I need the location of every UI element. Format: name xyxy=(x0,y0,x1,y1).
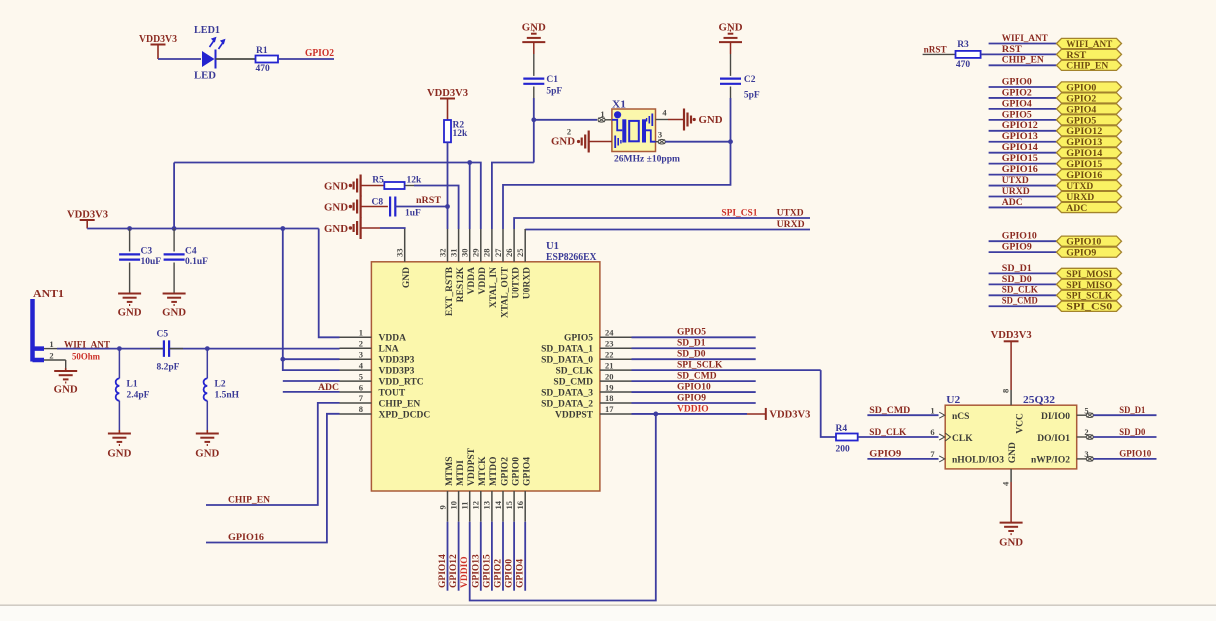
svg-text:SD_D1: SD_D1 xyxy=(1002,264,1032,274)
U1 pin 33 GND xyxy=(395,229,413,288)
svg-text:LED1: LED1 xyxy=(194,25,220,36)
wire U1 bottom GPIO15 xyxy=(491,522,493,591)
U1 pin 4 VDD3P3 xyxy=(340,360,415,376)
wire TOUT pin6 ADC xyxy=(283,391,340,393)
svg-text:GPIO10: GPIO10 xyxy=(1002,232,1037,242)
svg-text:2: 2 xyxy=(567,127,571,137)
net label GPIO14 xyxy=(1002,143,1038,153)
wire U1 bottom GPIO13 xyxy=(480,522,482,591)
wire rail to VDDA pin1 xyxy=(319,229,340,338)
svg-text:VDD3V3: VDD3V3 xyxy=(427,88,468,99)
wire U1 bottom GPIO12 xyxy=(458,522,460,591)
net label GPIO5 xyxy=(677,328,706,338)
wire rail riser to VDD line xyxy=(173,163,175,229)
svg-text:GPIO9: GPIO9 xyxy=(1002,243,1032,253)
wire VDD3V3 rail xyxy=(87,228,319,230)
U1 pin 32 EXT_RSTB xyxy=(437,229,455,316)
svg-text:GPIO15: GPIO15 xyxy=(482,554,492,588)
net label GPIO13 (rotated) xyxy=(471,554,481,588)
svg-text:2.4pF: 2.4pF xyxy=(127,391,150,401)
svg-text:LNA: LNA xyxy=(379,345,399,355)
U1 pin 26 U0TXD xyxy=(504,229,522,299)
svg-text:EXT_RSTB: EXT_RSTB xyxy=(445,266,455,316)
U1 pin 28 XTAL_IN xyxy=(482,229,500,308)
wire C8 to junction xyxy=(395,206,447,208)
svg-text:15: 15 xyxy=(504,501,514,510)
svg-text:10: 10 xyxy=(448,501,458,510)
ground L2 xyxy=(195,430,219,460)
crystal X1 26MHz xyxy=(612,100,680,165)
svg-text:20: 20 xyxy=(605,371,614,381)
svg-text:11: 11 xyxy=(460,501,470,509)
U1 pin 31 RES12K xyxy=(448,229,466,302)
wire X1 pin2 xyxy=(567,127,612,142)
svg-text:VDDD: VDDD xyxy=(478,267,488,295)
U1 pin 10 MTDI xyxy=(448,460,466,522)
svg-text:SD_D0: SD_D0 xyxy=(1002,275,1032,285)
wire pin30 riser xyxy=(469,163,471,230)
svg-text:GPIO13: GPIO13 xyxy=(471,554,481,588)
net label CHIP_EN xyxy=(228,496,270,506)
svg-text:ADC: ADC xyxy=(1002,198,1023,208)
svg-text:GPIO0: GPIO0 xyxy=(1066,83,1096,93)
svg-text:GPIO5: GPIO5 xyxy=(677,328,706,338)
wire GPIO4 to flag xyxy=(989,108,1057,110)
U1 pin 3 VDD3P3 xyxy=(340,349,415,365)
power VDD3V3 (VDDPST) xyxy=(766,408,811,421)
svg-text:SD_CMD: SD_CMD xyxy=(869,406,910,416)
port flag GPIO9 xyxy=(1057,247,1122,258)
svg-text:ADC: ADC xyxy=(1066,204,1087,214)
svg-text:GND: GND xyxy=(324,182,348,193)
wire SD_CLK to flag xyxy=(989,294,1057,296)
svg-text:XPD_DCDC: XPD_DCDC xyxy=(379,410,431,420)
svg-text:ADC: ADC xyxy=(318,383,339,393)
svg-text:GND: GND xyxy=(1008,442,1018,463)
net label GPIO10 (U2) xyxy=(1119,450,1151,460)
net label WIFI_ANT 50Ohm xyxy=(64,341,111,363)
svg-text:UTXD: UTXD xyxy=(1066,182,1093,192)
svg-text:nHOLD/IO3: nHOLD/IO3 xyxy=(952,456,1004,466)
ground C1 xyxy=(522,23,546,43)
wire R2 to pin32 xyxy=(447,142,449,229)
svg-text:L2: L2 xyxy=(215,380,226,390)
svg-text:DO/IO1: DO/IO1 xyxy=(1037,434,1070,444)
capacitor C4 0.1uF xyxy=(164,229,209,293)
net label GPIO2 xyxy=(305,48,334,59)
svg-text:VDD3P3: VDD3P3 xyxy=(379,367,415,377)
junction VDDIO xyxy=(653,412,658,417)
U1 pin 21 SD_CLK xyxy=(556,360,632,376)
net label SD_CLK (U2) xyxy=(869,428,907,438)
wire GPIO16 to pin8 xyxy=(206,414,340,543)
resistor R1 470 xyxy=(256,46,279,74)
U1 pin 19 SD_DATA_3 xyxy=(541,382,631,398)
port flag GPIO2 xyxy=(1057,93,1122,105)
wire U1 right SD_CMD xyxy=(632,380,756,382)
ground C3 xyxy=(118,294,142,319)
svg-text:GPIO14: GPIO14 xyxy=(1066,149,1102,159)
U1 pin 8 XPD_DCDC xyxy=(340,404,431,420)
svg-text:C2: C2 xyxy=(744,75,756,85)
capacitor C1 5pF xyxy=(523,42,562,98)
junction L1 xyxy=(117,346,122,351)
svg-text:14: 14 xyxy=(493,500,503,509)
svg-text:CHIP_EN: CHIP_EN xyxy=(1066,62,1108,72)
net label RST xyxy=(1002,45,1023,55)
U1 pin 22 SD_DATA_0 xyxy=(541,349,631,365)
port flag SPI_MISO xyxy=(1057,279,1122,291)
svg-text:SPI_MISO: SPI_MISO xyxy=(1066,281,1112,291)
net label GPIO0 xyxy=(1002,77,1032,87)
svg-text:GPIO2: GPIO2 xyxy=(1002,88,1032,98)
svg-text:8: 8 xyxy=(1001,389,1011,393)
wire SD_D0 to flag xyxy=(989,283,1057,285)
svg-text:C8: C8 xyxy=(372,198,384,208)
net label SD_CMD xyxy=(1002,297,1038,307)
port flag RST xyxy=(1057,49,1122,61)
junction rail-VDD3P3 xyxy=(280,226,285,231)
junction C3 xyxy=(127,226,132,231)
ground row2 xyxy=(324,196,361,218)
svg-text:GND: GND xyxy=(551,137,575,148)
svg-text:U2: U2 xyxy=(946,395,960,406)
svg-text:C3: C3 xyxy=(141,247,153,257)
svg-text:GPIO9: GPIO9 xyxy=(677,393,706,403)
svg-text:RES12K: RES12K xyxy=(456,266,466,302)
wire gnd row3 to pin33 xyxy=(361,228,405,229)
svg-text:SD_D1: SD_D1 xyxy=(677,339,706,349)
svg-text:GPIO4: GPIO4 xyxy=(1002,99,1032,109)
capacitor C3 10uF xyxy=(119,229,161,293)
U1 pin 17 VDDPST xyxy=(555,404,632,420)
port flag SPI_SCLK xyxy=(1057,290,1122,302)
svg-text:5: 5 xyxy=(359,371,363,381)
LED LED1 xyxy=(194,25,226,82)
wire U0TXD pin26 xyxy=(514,218,810,229)
ground C2 xyxy=(719,23,743,43)
svg-text:VDD_RTC: VDD_RTC xyxy=(379,378,424,388)
wire rail to VDD3P3 pins 3 4 xyxy=(283,229,340,371)
wire SPI_SCLK to R4 xyxy=(821,370,836,437)
U1 pin 13 MTDO xyxy=(482,456,500,521)
U1 pin 11 VDDPST xyxy=(460,447,478,521)
pin 2 to GND xyxy=(44,351,66,369)
net label SPI_CS1 xyxy=(721,209,757,219)
wire U1 right SPI_SCLK xyxy=(632,369,821,371)
wire VDDIO net bottom xyxy=(470,414,656,601)
svg-text:19: 19 xyxy=(605,382,614,392)
power VDD3V3 (left rail) xyxy=(67,210,108,229)
svg-text:SPI_SCLK: SPI_SCLK xyxy=(1066,292,1113,302)
svg-text:ANT1: ANT1 xyxy=(33,289,64,300)
svg-text:26: 26 xyxy=(504,248,514,257)
net label GPIO10 xyxy=(1002,232,1037,242)
svg-text:SD_DATA_2: SD_DATA_2 xyxy=(541,399,593,409)
power VDD3V3 (U2 VCC pin8) xyxy=(991,330,1032,405)
svg-text:VCC: VCC xyxy=(1016,413,1026,434)
svg-text:GND: GND xyxy=(999,538,1023,549)
net label CHIP_EN xyxy=(1002,56,1044,66)
svg-text:GPIO9: GPIO9 xyxy=(869,450,901,460)
svg-text:32: 32 xyxy=(437,249,447,258)
svg-text:R3: R3 xyxy=(957,40,969,50)
svg-text:6: 6 xyxy=(930,427,934,437)
svg-text:DI/IO0: DI/IO0 xyxy=(1041,412,1070,422)
port flag ADC xyxy=(1057,202,1122,214)
svg-text:R5: R5 xyxy=(372,176,384,186)
junction C2-X1 xyxy=(728,139,733,144)
net label SD_CMD xyxy=(677,372,717,382)
svg-text:17: 17 xyxy=(605,404,614,414)
svg-text:nWP/IO2: nWP/IO2 xyxy=(1031,456,1070,466)
net label SD_D1 xyxy=(677,339,706,349)
svg-text:0.1uF: 0.1uF xyxy=(185,257,208,267)
junction pin3 xyxy=(280,357,285,362)
wire U1 bottom GPIO14 xyxy=(447,522,449,591)
svg-text:30: 30 xyxy=(460,249,470,258)
wire U1 bottom GPIO4 xyxy=(524,522,526,591)
net label ADC xyxy=(318,383,339,393)
svg-text:GPIO5: GPIO5 xyxy=(1066,116,1096,126)
svg-text:3: 3 xyxy=(658,130,662,140)
wire ADC to flag xyxy=(989,206,1057,208)
svg-text:VDDPST: VDDPST xyxy=(555,410,594,420)
svg-text:L1: L1 xyxy=(127,380,138,390)
U1 pin 7 CHIP_EN xyxy=(340,393,421,409)
svg-text:2: 2 xyxy=(359,338,363,348)
net label SD_CLK xyxy=(1002,286,1039,296)
wire X1 pin3 to C2 XTAL_OUT xyxy=(503,142,731,229)
svg-text:1: 1 xyxy=(359,328,363,338)
svg-text:25Q32: 25Q32 xyxy=(1023,395,1055,406)
wire VDD_RTC pin5 xyxy=(283,380,340,382)
svg-text:GPIO2: GPIO2 xyxy=(305,48,334,59)
wire GPIO16 to flag xyxy=(989,174,1057,176)
svg-text:28: 28 xyxy=(482,249,492,258)
svg-text:470: 470 xyxy=(956,60,971,70)
svg-text:33: 33 xyxy=(395,249,405,258)
svg-text:GPIO0: GPIO0 xyxy=(511,457,521,486)
wire GPIO9 to U2 nHOLD xyxy=(867,458,938,460)
wire GPIO14 to flag xyxy=(989,152,1057,154)
ground L1 xyxy=(107,430,131,460)
capacitor C2 5pF xyxy=(720,42,760,142)
net label GPIO16 xyxy=(228,533,264,543)
svg-text:nRST: nRST xyxy=(416,196,442,206)
svg-text:50Ohm: 50Ohm xyxy=(72,353,100,363)
ground C4 xyxy=(162,294,186,319)
svg-text:SPI_SCLK: SPI_SCLK xyxy=(677,361,723,371)
svg-text:27: 27 xyxy=(493,248,503,257)
svg-text:VDDPST: VDDPST xyxy=(467,447,477,486)
svg-text:LED: LED xyxy=(194,71,216,82)
svg-text:CLK: CLK xyxy=(952,434,973,444)
net label GPIO14 (rotated) xyxy=(438,554,448,588)
svg-text:nCS: nCS xyxy=(952,412,969,422)
port flag GPIO16 xyxy=(1057,170,1122,182)
svg-text:VDD3P3: VDD3P3 xyxy=(379,356,415,366)
wire LED-R1 xyxy=(216,58,256,60)
svg-text:GND: GND xyxy=(118,308,142,319)
U1 pin 23 SD_DATA_1 xyxy=(541,338,631,354)
net label VDDIO (rotated) xyxy=(460,556,470,588)
net label GPIO4 xyxy=(1002,99,1032,109)
wire U0RXD pin25 xyxy=(525,228,810,231)
power VDD3V3 (R2) xyxy=(427,88,468,120)
svg-text:25: 25 xyxy=(515,249,525,258)
IC U1 ESP8266EX xyxy=(371,241,600,491)
svg-text:GND: GND xyxy=(699,115,723,126)
svg-text:VDD3V3: VDD3V3 xyxy=(67,210,108,221)
svg-text:GPIO2: GPIO2 xyxy=(1066,94,1096,104)
U1 pin 29 VDDD xyxy=(471,229,489,294)
net label SD_D0 xyxy=(1002,275,1032,285)
net label GPIO10 xyxy=(677,382,711,392)
antenna ANT1 xyxy=(33,289,65,362)
svg-text:MTDI: MTDI xyxy=(456,460,466,486)
svg-text:SD_D0: SD_D0 xyxy=(677,350,706,360)
svg-text:GPIO5: GPIO5 xyxy=(1002,110,1032,120)
svg-text:VDDIO: VDDIO xyxy=(677,404,709,414)
port flag GPIO12 xyxy=(1057,126,1122,138)
svg-text:MTMS: MTMS xyxy=(445,456,455,486)
port flag SPI_CS0 xyxy=(1057,301,1122,313)
svg-text:SD_DATA_3: SD_DATA_3 xyxy=(541,388,593,398)
svg-text:GPIO12: GPIO12 xyxy=(1066,127,1102,137)
svg-text:22: 22 xyxy=(605,349,614,359)
capacitor C8 1uF nRST xyxy=(372,197,422,219)
junction C1-X1 xyxy=(531,117,536,122)
svg-text:GPIO14: GPIO14 xyxy=(1002,143,1038,153)
wire U1 right SD_D0 xyxy=(632,358,756,360)
wire U2 DI/IO0 SD_D1 xyxy=(1077,413,1157,418)
net label ADC xyxy=(1002,198,1023,208)
port flag GPIO15 xyxy=(1057,159,1122,171)
U1 pin 25 U0RXD xyxy=(515,229,533,299)
svg-text:CHIP_EN: CHIP_EN xyxy=(379,399,421,409)
U2 pin numbers left xyxy=(930,405,935,459)
net label GPIO15 (rotated) xyxy=(482,554,492,588)
svg-text:UTXD: UTXD xyxy=(1002,176,1029,186)
wire C1 to XTAL_IN xyxy=(492,98,534,229)
svg-text:GPIO10: GPIO10 xyxy=(1066,238,1101,248)
svg-text:VDDIO: VDDIO xyxy=(460,556,470,588)
net label UTXD xyxy=(1002,176,1029,186)
U1 pin 12 MTCK xyxy=(471,456,489,522)
svg-text:TOUT: TOUT xyxy=(379,388,406,398)
svg-text:VDD3V3: VDD3V3 xyxy=(991,330,1032,341)
svg-text:200: 200 xyxy=(836,445,851,455)
svg-text:SPI_CS0: SPI_CS0 xyxy=(1066,303,1112,313)
svg-text:5pF: 5pF xyxy=(744,91,760,101)
wire U1 right GPIO9 xyxy=(632,402,756,404)
net label SPI_SCLK xyxy=(677,361,723,371)
wire U1 right SD_D1 xyxy=(632,347,756,349)
svg-text:21: 21 xyxy=(605,360,614,370)
net label GPIO4 (rotated) xyxy=(516,559,526,588)
svg-text:SD_CMD: SD_CMD xyxy=(677,372,717,382)
U1 pin 24 GPIO5 xyxy=(564,328,632,344)
capacitor C5 8.2pF xyxy=(150,330,183,373)
svg-text:C1: C1 xyxy=(546,75,558,85)
wire SD_D1 to flag xyxy=(989,272,1057,274)
svg-text:GND: GND xyxy=(162,308,186,319)
svg-text:1: 1 xyxy=(49,339,53,349)
wire U1 right GPIO10 xyxy=(632,391,756,393)
wire U1 bottom GPIO2 xyxy=(502,522,504,591)
svg-text:C4: C4 xyxy=(185,247,197,257)
wire GPIO0 to flag xyxy=(989,86,1057,88)
svg-text:GPIO9: GPIO9 xyxy=(1066,249,1096,259)
U1 pin 15 GPIO0 xyxy=(504,457,522,522)
svg-text:VDD3V3: VDD3V3 xyxy=(769,410,810,421)
svg-text:13: 13 xyxy=(482,501,492,510)
svg-text:ESP8266EX: ESP8266EX xyxy=(546,252,597,263)
net label URXD xyxy=(1002,187,1030,197)
svg-text:GPIO4: GPIO4 xyxy=(1066,105,1096,115)
svg-text:VDD3V3: VDD3V3 xyxy=(139,34,177,45)
port flag GPIO14 xyxy=(1057,148,1122,160)
port flag GPIO4 xyxy=(1057,104,1122,116)
svg-text:9: 9 xyxy=(437,505,447,509)
U2 pin numbers right xyxy=(1084,405,1088,459)
svg-text:UTXD: UTXD xyxy=(777,209,804,219)
wire nRST to R3 xyxy=(923,53,956,55)
svg-text:29: 29 xyxy=(471,249,481,258)
svg-text:470: 470 xyxy=(256,64,271,74)
svg-text:12k: 12k xyxy=(407,176,423,186)
U1 pin 16 GPIO4 xyxy=(515,457,533,522)
port flag GPIO0 xyxy=(1057,82,1122,94)
svg-text:6: 6 xyxy=(359,382,363,392)
wire R3 to RST flag xyxy=(981,53,1057,55)
wire WIFI_ANT to flag xyxy=(989,43,1057,45)
wire WIFI_ANT xyxy=(57,348,340,350)
pin glyph X1-3 xyxy=(656,130,666,145)
svg-text:WIFI_ANT: WIFI_ANT xyxy=(1002,34,1049,44)
net label nRST (R3) xyxy=(924,45,948,55)
wire GPIO12 to flag xyxy=(989,130,1057,132)
svg-text:GPIO4: GPIO4 xyxy=(516,559,526,588)
net label GPIO9 xyxy=(1002,243,1032,253)
net label UTXD xyxy=(777,209,804,219)
wire VDD line to U1 pins 30 29 xyxy=(174,163,481,230)
svg-text:SD_CMD: SD_CMD xyxy=(553,378,593,388)
svg-text:URXD: URXD xyxy=(1002,187,1030,197)
wire GPIO13 to flag xyxy=(989,141,1057,143)
junction nRST-pin32 xyxy=(445,204,450,209)
port flag SPI_MOSI xyxy=(1057,268,1122,280)
svg-text:R4: R4 xyxy=(836,424,848,434)
net label GPIO5 xyxy=(1002,110,1032,120)
wire GPIO9 to flag xyxy=(989,251,1057,253)
wire GPIO15 to flag xyxy=(989,163,1057,165)
U1 pin 6 TOUT xyxy=(340,382,406,398)
wire C1 to X1 pin1 xyxy=(534,119,597,121)
svg-text:10uF: 10uF xyxy=(141,257,162,267)
svg-text:SD_D0: SD_D0 xyxy=(1119,428,1145,438)
svg-text:GPIO12: GPIO12 xyxy=(1002,121,1038,131)
svg-text:XTAL_OUT: XTAL_OUT xyxy=(500,266,510,318)
pin 1 WIFI_ANT xyxy=(44,339,57,349)
U1 pin 14 GPIO2 xyxy=(493,457,511,522)
svg-text:URXD: URXD xyxy=(1066,193,1094,203)
svg-text:R1: R1 xyxy=(256,46,268,56)
U1 pin 2 LNA xyxy=(340,338,399,354)
junction L2 xyxy=(205,346,210,351)
net label GPIO9 xyxy=(677,393,706,403)
